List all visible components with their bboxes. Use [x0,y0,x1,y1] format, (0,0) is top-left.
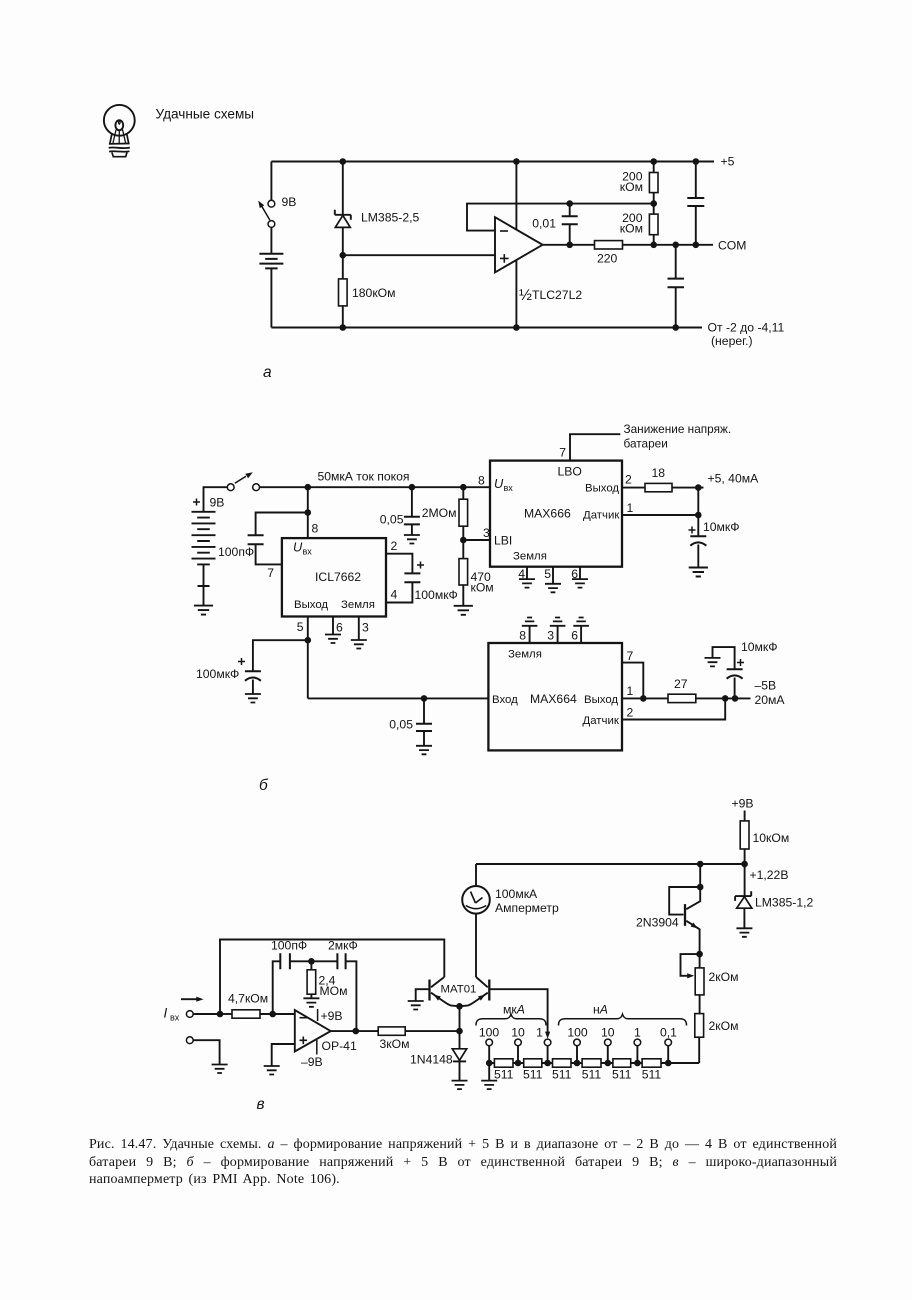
svg-text:18: 18 [652,466,666,480]
resistor R3 200кОм upper [653,162,655,173]
node 0,05 [421,695,428,702]
svg-text:1: 1 [536,1026,543,1040]
ammeter M1 [475,864,477,886]
svg-text:а: а [263,364,272,381]
node pot [696,951,703,958]
ground R13 [303,998,319,1007]
svg-text:8: 8 [312,522,319,536]
svg-text:6: 6 [571,629,578,643]
svg-text:вх: вх [504,483,514,493]
capacitor C11 100пФ [273,961,281,1014]
wire: bottom rail [271,327,702,329]
svg-text:вх: вх [170,1013,180,1023]
svg-text:10: 10 [601,1026,615,1040]
svg-text:4,7кОм: 4,7кОм [228,992,268,1006]
svg-text:511: 511 [582,1068,602,1082]
resistor R13 2,4МОм [310,961,312,970]
resistor R11 2кОм [695,1014,704,1038]
wire: LBO pin7 [570,434,620,460]
node: LM385 / 180k / +input [340,252,347,259]
wire: +input from LM385 node [343,254,495,256]
svg-text:нА: нА [593,1003,608,1017]
IC U3 MAX666 [490,461,622,567]
capacitor C9 10мкФ [690,535,706,537]
svg-text:1: 1 [627,684,634,698]
svg-text:5: 5 [297,620,304,634]
resistor R14 3кОм [378,1027,405,1035]
ground up pin3 [550,618,566,626]
ladder rail [489,1046,668,1063]
ground +input [264,1066,280,1075]
wire: ICL pin5 drop [307,617,309,699]
svg-text:2МОм: 2МОм [422,506,457,520]
svg-text:100мкА: 100мкА [495,887,538,901]
resistor R1 180кОм [342,255,344,279]
svg-text:Выход: Выход [584,694,618,706]
svg-text:511: 511 [523,1068,543,1082]
node emitters [456,1003,463,1010]
svg-text:МОм: МОм [320,984,348,998]
svg-text:MAX664: MAX664 [530,692,577,706]
opamp V- stub [316,1040,318,1055]
svg-text:Земля: Земля [508,649,542,661]
svg-text:Занижение напряж.: Занижение напряж. [624,422,732,436]
svg-text:3: 3 [362,621,369,635]
IC U4 MAX664 [488,643,622,750]
svg-text:LBO: LBO [558,465,582,479]
svg-text:50мкА ток покоя: 50мкА ток покоя [318,470,410,484]
wire: ICL pin6 [332,617,334,635]
svg-text:2мкФ: 2мкФ [328,939,358,953]
terminal input 2 [186,1037,193,1044]
svg-text:Земля: Земля [341,599,375,611]
wire: pin8 drop [307,487,309,538]
svg-text:6: 6 [336,621,343,635]
svg-text:3кОм: 3кОм [380,1037,410,1051]
rail junction dots v [697,861,748,868]
svg-text:2: 2 [627,706,634,720]
svg-text:100: 100 [567,1026,588,1040]
svg-text:0,05: 0,05 [389,718,413,732]
svg-text:ICL7662: ICL7662 [315,570,361,584]
resistor R4 200кОм lower [653,204,655,215]
wire: MAX664 pin8 top [529,626,531,643]
svg-text:Вход: Вход [492,694,518,706]
svg-text:LM385-1,2: LM385-1,2 [755,896,813,910]
input arrow [181,998,197,1000]
svg-text:Датчик: Датчик [583,715,620,727]
svg-text:9В: 9В [210,496,225,510]
svg-text:2: 2 [391,539,398,553]
resistor R2 220 [595,241,623,249]
svg-text:Удачные схемы: Удачные схемы [156,107,255,122]
wire: output to COM [543,244,595,246]
wire: pin5 to MAX664 Вход [308,697,489,699]
ground pin4 [519,579,535,588]
svg-text:10мкФ: 10мкФ [741,640,778,654]
ground ICL pin3 [351,640,367,649]
ground D2 [736,928,752,937]
IC U2 ICL7662 [282,538,386,616]
resistor R18 511 [582,1059,601,1067]
svg-text:+5: +5 [721,155,735,169]
resistor R7 18 [645,483,672,491]
battery B1 [270,227,272,253]
ground input 2 [212,1065,228,1074]
wire: Q3 base to range tap [489,989,547,1032]
zener D1 LM385-2,5 [342,162,344,215]
svg-text:U: U [494,476,504,491]
transistor Q2 MAT01 left [428,980,430,1001]
svg-text:+5, 40мА: +5, 40мА [708,472,760,486]
resistor R15 511 [494,1059,513,1067]
ground C8 [404,535,420,544]
svg-text:–5В: –5В [755,679,777,693]
capacitor C2 right [695,162,697,199]
capacitor C12 2мкФ [311,960,337,962]
wire: LBI to MAX666 [463,539,490,541]
svg-text:2N3904: 2N3904 [636,916,679,930]
resistor R6 470кОм [462,540,464,559]
svg-text:27: 27 [674,677,688,691]
svg-text:100пФ: 100пФ [271,939,307,953]
node pin5/100мкФ [305,637,312,644]
resistor R5 2МОм [462,487,464,499]
wire: MAX666 pin6 [579,567,581,579]
capacitor C3 bottom [675,245,677,279]
svg-text:кОм: кОм [471,581,494,595]
wire: MAX664 pin2 Датчик [622,698,725,719]
wire: +input ground [272,1044,295,1066]
svg-text:100мкФ: 100мкФ [196,667,239,681]
svg-text:+9В: +9В [321,1009,343,1023]
svg-text:1: 1 [634,1026,641,1040]
svg-text:511: 511 [642,1068,662,1082]
svg-text:100: 100 [479,1026,500,1040]
svg-text:10: 10 [511,1026,525,1040]
svg-text:кОм: кОм [620,221,643,235]
lightbulb icon [104,105,135,157]
wire: main input rail b [260,486,491,488]
node fb caps [308,958,315,965]
brace мкА [476,1014,546,1025]
terminal input 1 [186,1011,193,1018]
svg-text:7: 7 [627,649,634,663]
svg-text:8: 8 [519,629,526,643]
junction dots b top [305,484,467,516]
svg-text:10кОм: 10кОм [753,831,790,845]
brace нА [559,1014,687,1025]
svg-text:кОм: кОм [620,180,643,194]
svg-text:мкА: мкА [503,1003,525,1017]
opamp V+ stub [317,1009,319,1021]
svg-text:½: ½ [519,287,532,304]
svg-text:Датчик: Датчик [583,510,620,522]
svg-text:8: 8 [478,474,485,488]
ground pin6 [572,579,588,588]
svg-text:1N4148: 1N4148 [410,1053,453,1067]
ground D3 [452,1081,468,1090]
svg-text:+1,22В: +1,22В [750,868,789,882]
wire: main rail v [476,863,745,865]
wire: Датчик pin1 [622,514,698,516]
ground C9 [689,568,708,577]
svg-text:2: 2 [625,473,632,487]
svg-text:7: 7 [559,446,566,460]
plus sign battery [193,499,200,506]
svg-text:0,01: 0,01 [532,217,556,231]
capacitor C6 100мкФ output [253,640,308,671]
svg-text:+9В: +9В [732,797,754,811]
capacitor C8 0,05 upper [411,487,413,517]
svg-text:180кОм: 180кОм [352,286,396,300]
wire: opamp output [331,1030,379,1032]
ground pin5 [545,584,561,593]
svg-text:U: U [293,540,303,555]
capacitor C10 10мкФ (-5В) [705,658,721,667]
svg-text:511: 511 [612,1068,632,1082]
svg-text:LBI: LBI [494,534,512,548]
svg-text:От -2 до -4,11: От -2 до -4,11 [708,321,785,335]
svg-text:OP-41: OP-41 [322,1039,357,1053]
svg-text:COM: COM [718,239,746,253]
capacitor C1 0,01 [569,204,571,217]
node diode [456,1028,463,1035]
wire: ICL pin3 [358,617,360,641]
wire: MAX664 pin6 top [580,626,582,643]
wire: MAX666 pin5 [552,567,554,584]
diode D3 1N4148 [459,1031,461,1049]
battery B2 9В [204,487,228,512]
svg-text:–9В: –9В [301,1055,323,1069]
op-amp U5 OP-41 [295,1010,331,1052]
svg-text:5: 5 [544,567,551,581]
svg-text:MAX666: MAX666 [524,507,571,521]
ground up pin8 [522,618,538,626]
resistor R8 27 [668,694,696,702]
resistor R10 2кОм trimmed [681,954,700,976]
svg-text:4: 4 [391,588,398,602]
svg-text:100пФ: 100пФ [218,545,254,559]
svg-text:батареи: батареи [624,437,668,451]
svg-text:2кОм: 2кОм [709,1019,739,1033]
svg-text:511: 511 [494,1068,514,1082]
transistor Q3 MAT01 right [488,980,490,1001]
range labels [479,1026,677,1040]
ground C6 [245,694,261,703]
svg-text:7: 7 [267,566,274,580]
wire: feedback to MAT01 collector [220,940,444,1015]
ladder junction dots [486,1060,672,1067]
svg-text:9В: 9В [282,195,297,209]
svg-text:Амперметр: Амперметр [495,901,559,915]
wire: top +5 rail [271,161,714,163]
svg-text:1: 1 [627,501,634,515]
node LBI [460,537,467,544]
svg-text:вх: вх [303,547,313,557]
svg-text:LM385-2,5: LM385-2,5 [361,211,419,225]
svg-text:511: 511 [552,1068,572,1082]
switch S2 [227,484,234,491]
svg-text:100мкФ: 100мкФ [415,588,458,602]
wire: supply rail through op-amp [515,162,517,328]
capacitor C7 0,05 lower [423,698,425,723]
svg-text:TLC27L2: TLC27L2 [532,288,582,302]
node summing [269,1011,276,1018]
ground R6 [454,606,473,615]
wire: left battery branch top [270,162,272,201]
svg-text:20мА: 20мА [755,693,786,707]
capacitor C4 100пФ [256,513,308,536]
ground Q2 base [408,1001,424,1010]
svg-text:Выход: Выход [294,599,328,611]
wire: MAX666 pin4 [526,567,528,579]
wire: -input and feedback run [467,204,654,231]
ground ICL pin6 [325,635,341,644]
wire: Выход pin2 [622,487,645,489]
svg-text:I: I [164,1006,168,1021]
svg-text:Выход: Выход [585,483,619,495]
junction dots circuit a [340,158,700,331]
ground battery b [194,606,213,615]
svg-text:(нерег.): (нерег.) [711,334,753,348]
wire: sense tie [697,488,699,537]
transistor Q1 2N3904 [699,864,701,887]
resistor R16 511 [524,1059,542,1067]
wire: MAX664 pin3 top [557,626,559,643]
capacitor C5 100мкФ [404,573,420,582]
ground up pin6 [573,618,589,626]
svg-text:Земля: Земля [513,551,547,563]
wire: MAX664 pin1 Выход [622,697,668,699]
resistor R9 10кОм [744,811,746,821]
zener D2 LM385-1,2 [744,864,746,896]
resistor R12 4,7кОм [220,1013,232,1015]
svg-text:3: 3 [547,629,554,643]
svg-text:220: 220 [597,252,618,266]
svg-text:б: б [259,777,269,794]
wire: ICL pin2 to cap [386,554,412,574]
resistor R20 511 [642,1059,661,1067]
svg-text:10мкФ: 10мкФ [703,520,740,534]
ground ladder [488,1063,490,1081]
ground C7 [416,746,432,755]
switch S1 [268,200,275,207]
svg-text:2кОм: 2кОм [709,970,739,984]
resistor R17 511 [553,1059,572,1067]
junction dots b bottom [640,695,738,702]
node input [217,1011,224,1018]
svg-text:в: в [257,1096,265,1113]
range terminals [486,1039,672,1046]
svg-text:0,1: 0,1 [660,1026,677,1040]
svg-text:0,05: 0,05 [380,513,404,527]
svg-text:MAT01: MAT01 [441,984,477,996]
wire: MAX664 pin7 [622,663,643,699]
op-amp U1 TLC27L2 [495,217,543,272]
resistor R19 511 [613,1059,631,1067]
